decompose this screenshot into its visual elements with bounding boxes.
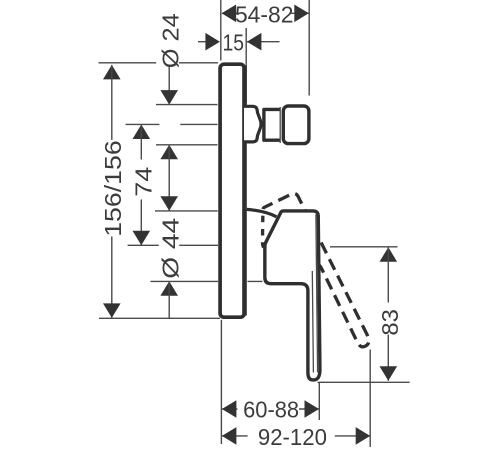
- sleeve end cap: [283, 106, 309, 144]
- dimension 74: [133, 125, 151, 246]
- dimension 92-120 bottom: [222, 427, 370, 445]
- wire: extension line sleeve top: [156, 104, 218, 106]
- wire: extension line 83 bottom: [318, 381, 410, 383]
- wire: extension line 83 top: [330, 246, 398, 248]
- sleeve collar (diameter 24): [244, 106, 261, 142]
- svg-text:156/156: 156/156: [100, 140, 126, 237]
- wire: extension line plate bottom left: [99, 317, 220, 319]
- wire: extension line cap right: [308, 0, 310, 96]
- dimension 156/156: [103, 65, 121, 318]
- wire: center line sleeve: [126, 123, 218, 125]
- dimension diameter 24: [160, 67, 178, 211]
- wall plate (escutcheon): [220, 64, 244, 317]
- svg-text:Ø 44: Ø 44: [157, 218, 183, 279]
- wire: extension line dashed handle tip: [369, 350, 371, 448]
- dimension 54-82 top: [222, 5, 309, 23]
- svg-text:83: 83: [377, 309, 403, 336]
- dimension 60-88 bottom: [222, 400, 319, 418]
- handle inner edge line right: [316, 215, 318, 373]
- wire: extension line hub top: [155, 210, 218, 212]
- dimension diameter 44: [160, 281, 178, 318]
- wire: extension line wall back top: [220, 0, 222, 61]
- wire: extension line wall back bottom: [220, 320, 222, 444]
- dimension 15 top: [198, 33, 280, 51]
- sleeve cap joint line: [279, 107, 281, 143]
- handle lever (solid position): [265, 211, 320, 380]
- svg-text:Ø 24: Ø 24: [157, 13, 183, 68]
- sleeve middle cylinder: [264, 109, 280, 140]
- svg-text:60-88: 60-88: [243, 396, 299, 422]
- svg-text:54-82: 54-82: [235, 1, 294, 27]
- wire: extension line plate top left: [99, 62, 219, 64]
- plate front face thick edge: [242, 66, 247, 316]
- wire: extension line sleeve front: [245, 28, 247, 103]
- wire: extension line hub bottom: [151, 280, 263, 282]
- svg-text:92-120: 92-120: [258, 424, 327, 450]
- dimension 83: [380, 247, 398, 381]
- dashed handle front face (alternate position): [248, 209, 278, 247]
- svg-text:15: 15: [223, 30, 245, 56]
- handle inner edge line left: [312, 271, 313, 373]
- escutcheon dome curve: [247, 209, 277, 216]
- svg-text:74: 74: [130, 167, 156, 197]
- wire: center line handle: [128, 244, 218, 246]
- dashed handle outline (alternate position): [248, 191, 371, 367]
- wire: extension line solid handle tip: [318, 383, 320, 420]
- wire: extension line sleeve bottom: [156, 144, 218, 146]
